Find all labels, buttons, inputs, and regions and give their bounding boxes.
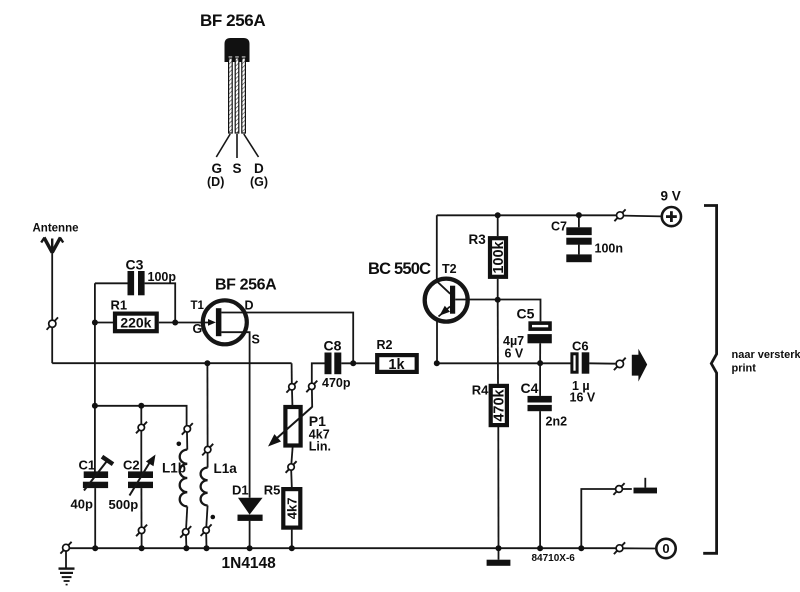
svg-text:1N4148: 1N4148 [222, 555, 277, 572]
svg-text:470p: 470p [322, 376, 351, 390]
svg-text:Lin.: Lin. [309, 440, 331, 454]
svg-text:BF 256A: BF 256A [215, 277, 277, 294]
svg-text:1k: 1k [388, 357, 405, 373]
svg-text:100n: 100n [595, 242, 624, 256]
svg-text:C7: C7 [551, 220, 567, 234]
svg-text:G: G [193, 322, 203, 336]
svg-text:R5: R5 [264, 483, 281, 498]
svg-text:R2: R2 [377, 338, 393, 352]
svg-text:D: D [254, 161, 264, 176]
svg-text:6 V: 6 V [505, 347, 524, 361]
svg-text:D1: D1 [232, 483, 249, 498]
svg-text:0: 0 [662, 541, 669, 556]
svg-text:T1: T1 [191, 300, 205, 312]
svg-text:C8: C8 [324, 338, 342, 354]
svg-text:40p: 40p [71, 497, 93, 512]
svg-text:C4: C4 [521, 380, 539, 396]
svg-text:Antenne: Antenne [33, 223, 79, 235]
svg-text:100k: 100k [491, 240, 507, 273]
svg-text:4k7: 4k7 [284, 498, 299, 520]
svg-text:C6: C6 [572, 339, 589, 354]
svg-text:2n2: 2n2 [546, 415, 568, 429]
svg-text:470k: 470k [492, 388, 508, 421]
svg-text:print: print [732, 363, 757, 375]
svg-text:L1a: L1a [214, 461, 238, 476]
svg-text:naar versterker: naar versterker [732, 349, 800, 361]
svg-text:C5: C5 [517, 306, 535, 322]
svg-text:S: S [233, 161, 242, 176]
svg-text:R4: R4 [472, 383, 489, 398]
svg-text:100p: 100p [148, 270, 177, 284]
svg-text:84710X-6: 84710X-6 [532, 553, 576, 564]
svg-text:G: G [212, 161, 223, 176]
svg-text:C3: C3 [126, 257, 144, 273]
svg-text:(G): (G) [250, 175, 268, 189]
svg-text:500p: 500p [109, 497, 139, 512]
svg-text:C1: C1 [79, 458, 96, 473]
svg-text:(D): (D) [207, 175, 224, 189]
svg-text:S: S [252, 333, 260, 347]
svg-text:BF 256A: BF 256A [200, 11, 265, 30]
svg-text:16 V: 16 V [570, 391, 596, 405]
svg-text:C2: C2 [123, 458, 140, 473]
svg-text:T2: T2 [442, 262, 457, 276]
svg-text:L1b: L1b [162, 461, 186, 476]
svg-text:220k: 220k [120, 315, 151, 331]
svg-text:BC 550C: BC 550C [368, 260, 431, 278]
svg-text:R3: R3 [469, 232, 487, 247]
svg-text:D: D [245, 299, 254, 313]
svg-text:R1: R1 [111, 298, 128, 313]
svg-text:9 V: 9 V [661, 189, 681, 204]
